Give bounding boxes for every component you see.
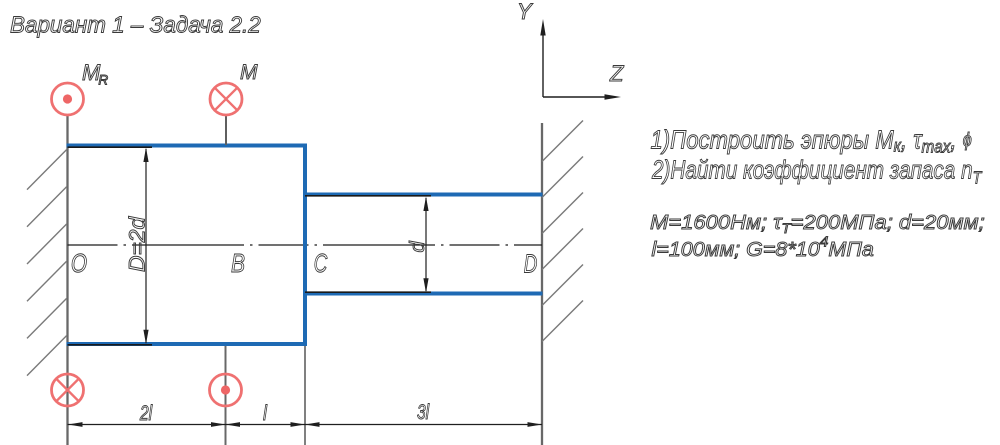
torque symbol M (cross in circle) top at B [210, 83, 242, 115]
title Вариант 1 — Задача 2.2 [10, 11, 261, 37]
extension line top of d dimension [305, 195, 431, 197]
dimension text 3l [417, 400, 430, 424]
dimension line D=2d [143, 148, 148, 345]
stem of torque M at B top [225, 116, 227, 146]
dimension text l [263, 402, 267, 425]
svg-text:2l: 2l [139, 401, 153, 425]
centerline axis O-D [68, 244, 543, 246]
label M_R [82, 60, 108, 88]
svg-text:Z: Z [609, 61, 625, 86]
left wall hatching [27, 150, 67, 376]
svg-text:O: O [71, 249, 87, 278]
torque symbol M_R (dot in circle) top left [52, 83, 84, 115]
extension line bottom of D dimension [68, 344, 153, 346]
label M [240, 61, 258, 84]
dimension line d [423, 197, 428, 293]
right wall line [541, 123, 543, 445]
svg-text:D: D [524, 248, 538, 278]
node label O [71, 249, 87, 278]
svg-text:1)Построить эпюры Мк, τmax,: 1)Построить эпюры Мк, τmax, ϕ [651, 126, 972, 157]
given data line 1 [650, 211, 985, 237]
node label D [524, 248, 538, 278]
given data line 2 [652, 234, 874, 261]
svg-text:Вариант 1 – Задача 2.2: Вариант 1 – Задача 2.2 [10, 11, 261, 37]
svg-text:C: C [314, 248, 328, 278]
node label C [314, 248, 328, 278]
coordinate axes Y Z [540, 19, 621, 100]
extension line top of D dimension [68, 146, 153, 148]
svg-text:d: d [407, 241, 429, 253]
label d (rotated) [407, 241, 429, 253]
shaft small section outline C-D [305, 195, 543, 294]
svg-text:M: M [240, 61, 258, 84]
extension line bottom of d dimension [305, 291, 431, 293]
svg-text:MR: MR [82, 60, 108, 88]
axis label Y [517, 0, 533, 24]
torque symbol (dot in circle) bottom at B [210, 374, 242, 406]
extension line below B [225, 346, 227, 445]
task text line 2 [651, 155, 982, 188]
task text line 1 [651, 126, 972, 157]
shaft large section outline O-C [67, 146, 306, 345]
svg-text:D=2d: D=2d [125, 215, 150, 272]
label D=2d (rotated) [125, 215, 150, 272]
svg-text:M=1600Нм; τТ=200МПа; d=20м: M=1600Нм; τТ=200МПа; d=20мм; [650, 211, 985, 237]
svg-text:3l: 3l [417, 400, 430, 424]
torque symbol (cross in circle) bottom left [52, 374, 84, 406]
left wall line [66, 115, 68, 445]
svg-text:2)Найти коэффициент запаса nТ: 2)Найти коэффициент запаса nТ [651, 155, 982, 188]
right wall hatching [542, 121, 583, 342]
axis label Z [609, 61, 625, 86]
svg-text:Y: Y [517, 0, 533, 24]
node label B [231, 250, 245, 279]
bottom dimension line [68, 422, 543, 427]
svg-text:l=100мм; G=8*104МПа: l=100мм; G=8*104МПа [652, 234, 874, 261]
svg-text:B: B [231, 250, 245, 279]
extension line below C [304, 346, 306, 445]
svg-text:l: l [263, 402, 267, 425]
dimension text 2l [139, 401, 153, 425]
